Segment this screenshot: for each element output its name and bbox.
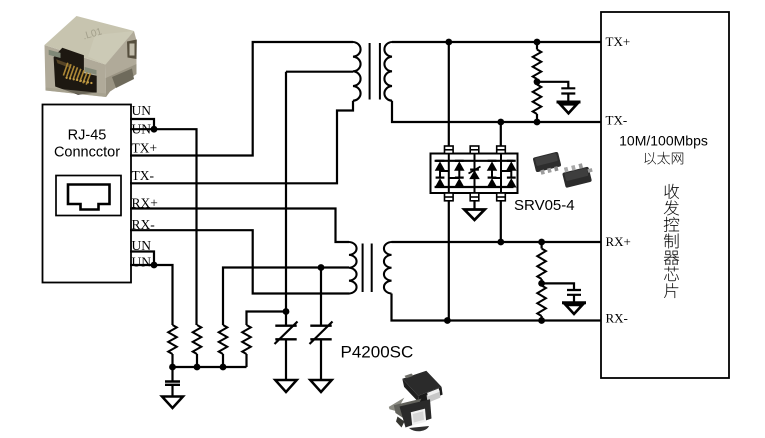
wire TX+ to transformer T1 primary top: [130, 42, 353, 156]
ground bar under C5: [562, 301, 586, 304]
wire TX- to TVS pin3: [500, 122, 502, 146]
capacitor C5: [567, 290, 581, 295]
resistor R3: [219, 325, 228, 354]
wire C5 to ground: [573, 295, 575, 302]
svg-text:TX+: TX+: [132, 140, 158, 155]
TVS diode column 1 mid link: [439, 170, 441, 178]
svg-text:Conncctor: Conncctor: [54, 145, 120, 161]
transformer T1 secondary coil: [384, 42, 392, 101]
svg-text:UN: UN: [132, 103, 152, 118]
TVS bottom pin 3: [497, 193, 506, 201]
resistor R5: [533, 50, 542, 80]
ground under C4: [560, 104, 577, 113]
TVS col1 stub to pin1: [440, 170, 449, 172]
TVS diode pair column 2 lower: [455, 179, 464, 187]
wire UN1 stub bracket: [130, 119, 154, 129]
capacitor C3: [310, 326, 331, 340]
junction RX- TVS: [444, 317, 451, 324]
resistor R8: [537, 286, 546, 317]
TVS col5 stub to pin3: [501, 170, 511, 172]
transformer T1 primary coil: [353, 42, 361, 101]
TVS diode pair column 3 lower: [488, 179, 497, 187]
junction UN1-UN2: [151, 126, 158, 133]
svg-text:TX+: TX+: [606, 34, 631, 49]
ground under C5: [566, 305, 583, 314]
TVS internal top rail: [435, 160, 514, 162]
junction UN3-UN4: [151, 262, 158, 269]
wire divider to C4: [537, 82, 568, 88]
resistor R1: [168, 325, 177, 354]
TVS diode column 3 mid link: [491, 170, 493, 178]
TVS internal bottom rail: [435, 186, 514, 188]
junction rail R2: [194, 364, 201, 371]
svg-text:TX-: TX-: [606, 113, 628, 128]
junction R7 R8: [538, 280, 545, 287]
TVS diode column 2 mid link: [458, 170, 460, 178]
resistor R2: [193, 325, 202, 354]
junction TX+ TVS: [445, 39, 452, 46]
TVS diode column 4 mid link: [510, 170, 512, 178]
wire RX+ into R7: [540, 242, 542, 249]
wire T1 secondary bottom to TX- chip: [392, 101, 601, 122]
wire UN2 line: [130, 129, 197, 325]
TVS diode pair column 4 upper: [507, 162, 516, 170]
wire R3 top to T2 center tap: [223, 268, 349, 326]
SOT-23 package photos (TVS): [533, 152, 595, 188]
TVS diode pair column 1 upper: [436, 162, 445, 170]
wire R7 R8 link: [540, 279, 542, 286]
junction TX+ R divider: [534, 39, 541, 46]
wire C1 to ground: [171, 386, 173, 397]
RJ-45 connector photo: [45, 16, 137, 97]
transformer T2 secondary coil: [384, 242, 392, 294]
chip label 以太网: [645, 152, 683, 165]
wire T1 center tap long vertical: [285, 72, 287, 326]
svg-text:P4200SC: P4200SC: [341, 343, 414, 362]
TVS bottom pin 2: [470, 193, 479, 201]
TVS diode pair column 2 upper: [455, 162, 464, 170]
wire T1 center tap horizontal: [286, 71, 353, 73]
wire C4 to ground: [567, 94, 569, 102]
capacitor C2: [275, 326, 296, 340]
ground under C3: [310, 380, 332, 392]
TVS diode pair column 1 lower: [436, 179, 445, 187]
svg-text:RX-: RX-: [606, 311, 628, 326]
junction R5 R6: [534, 78, 541, 85]
svg-text:UN: UN: [132, 255, 152, 270]
TVS bottom pin 1: [445, 193, 454, 201]
wire R3 bottom stub: [222, 354, 224, 367]
junction R4 long vertical: [283, 308, 290, 315]
junction center tap cap C3: [318, 264, 325, 271]
wire C3 to ground: [320, 339, 322, 380]
wire R8 to RX-: [540, 316, 542, 321]
resistor R6: [533, 85, 542, 115]
wire ground rail: [173, 366, 247, 368]
TVS col2 stub to pin1: [449, 177, 460, 179]
wire RX+ to transformer T2 primary top: [130, 209, 349, 243]
wire R5 R6 link: [536, 79, 538, 85]
ground under C1: [162, 397, 183, 409]
TVS top pin 1: [445, 146, 454, 154]
wire R1 bottom stub: [171, 354, 173, 367]
SMD package photos (P4200SC): [389, 371, 443, 432]
transformer T1 core: [370, 43, 380, 100]
ground under C2: [275, 380, 297, 392]
TVS top pin 3: [497, 146, 506, 154]
wire R4 bottom stub: [245, 354, 247, 367]
TVS zener Z1: [470, 171, 479, 178]
wire TVS pin6 to RX-: [448, 201, 450, 321]
wire T1 secondary top to TX+ chip: [392, 41, 601, 43]
capacitor C1: [165, 382, 180, 385]
TVS diode pair column 3 upper: [488, 162, 497, 170]
TVS diode pair column 4 lower: [507, 179, 516, 187]
wire rail to capacitor C1: [171, 367, 173, 381]
transformer T2 core: [363, 244, 372, 293]
TVS internal vertical pin1: [448, 154, 450, 194]
capacitor C4: [561, 88, 575, 93]
ground under TVS: [464, 210, 485, 221]
TVS internal vertical pin2: [474, 154, 476, 194]
ground bar under C4: [557, 101, 581, 104]
wire center tap to C3: [320, 268, 322, 326]
wire R4 top: [247, 312, 287, 326]
transformer T2 primary coil: [349, 242, 357, 294]
RJ-45 connector box: [43, 105, 132, 283]
junction rail R1: [169, 364, 176, 371]
svg-text:SRV05-4: SRV05-4: [514, 197, 575, 214]
TVS internal vertical pin3: [500, 154, 502, 194]
wire RX- to transformer T2 primary bottom: [130, 230, 349, 293]
wire TX+ to TVS pin1: [448, 42, 450, 146]
svg-text:RJ-45: RJ-45: [68, 128, 107, 144]
TVS col4 stub to pin3: [492, 177, 501, 179]
svg-text:10M/100Mbps: 10M/100Mbps: [619, 133, 708, 149]
wire TX+ into R5: [536, 42, 538, 50]
wire T2 secondary top to RX+ chip: [392, 241, 602, 243]
jack symbol inner: [68, 185, 110, 210]
junction rail R3: [220, 364, 227, 371]
junction RX+ R divider: [538, 239, 545, 246]
wire UN4 line: [130, 265, 173, 325]
junction TX- R divider: [534, 119, 541, 126]
wire TVS gnd pin: [473, 201, 475, 209]
junction TX- TVS: [497, 119, 504, 126]
wire TVS pin4 to RX+: [500, 201, 502, 242]
wire C2 to ground: [285, 339, 287, 380]
TVS U1 body: [431, 154, 518, 194]
svg-text:RX+: RX+: [606, 234, 631, 249]
wire UN3 stub bracket: [130, 252, 154, 266]
resistor R7: [537, 249, 546, 280]
TVS top pin 2: [470, 146, 479, 154]
resistor R4: [242, 325, 251, 354]
jack symbol outer: [56, 176, 121, 216]
ethernet PHY chip box: [601, 12, 729, 378]
chip label 收发控制器芯片 (vertical): [664, 184, 679, 298]
junction RX+ TVS: [497, 239, 504, 246]
wire divider to C5: [542, 283, 574, 289]
wire TX- to transformer T1 primary bottom: [130, 101, 353, 184]
wire T2 secondary bottom to RX- chip: [392, 294, 602, 321]
wire R2 bottom stub: [196, 354, 198, 367]
junction RX- R divider: [538, 317, 545, 324]
wire R6 to TX-: [536, 114, 538, 122]
svg-text:TX-: TX-: [132, 168, 155, 183]
